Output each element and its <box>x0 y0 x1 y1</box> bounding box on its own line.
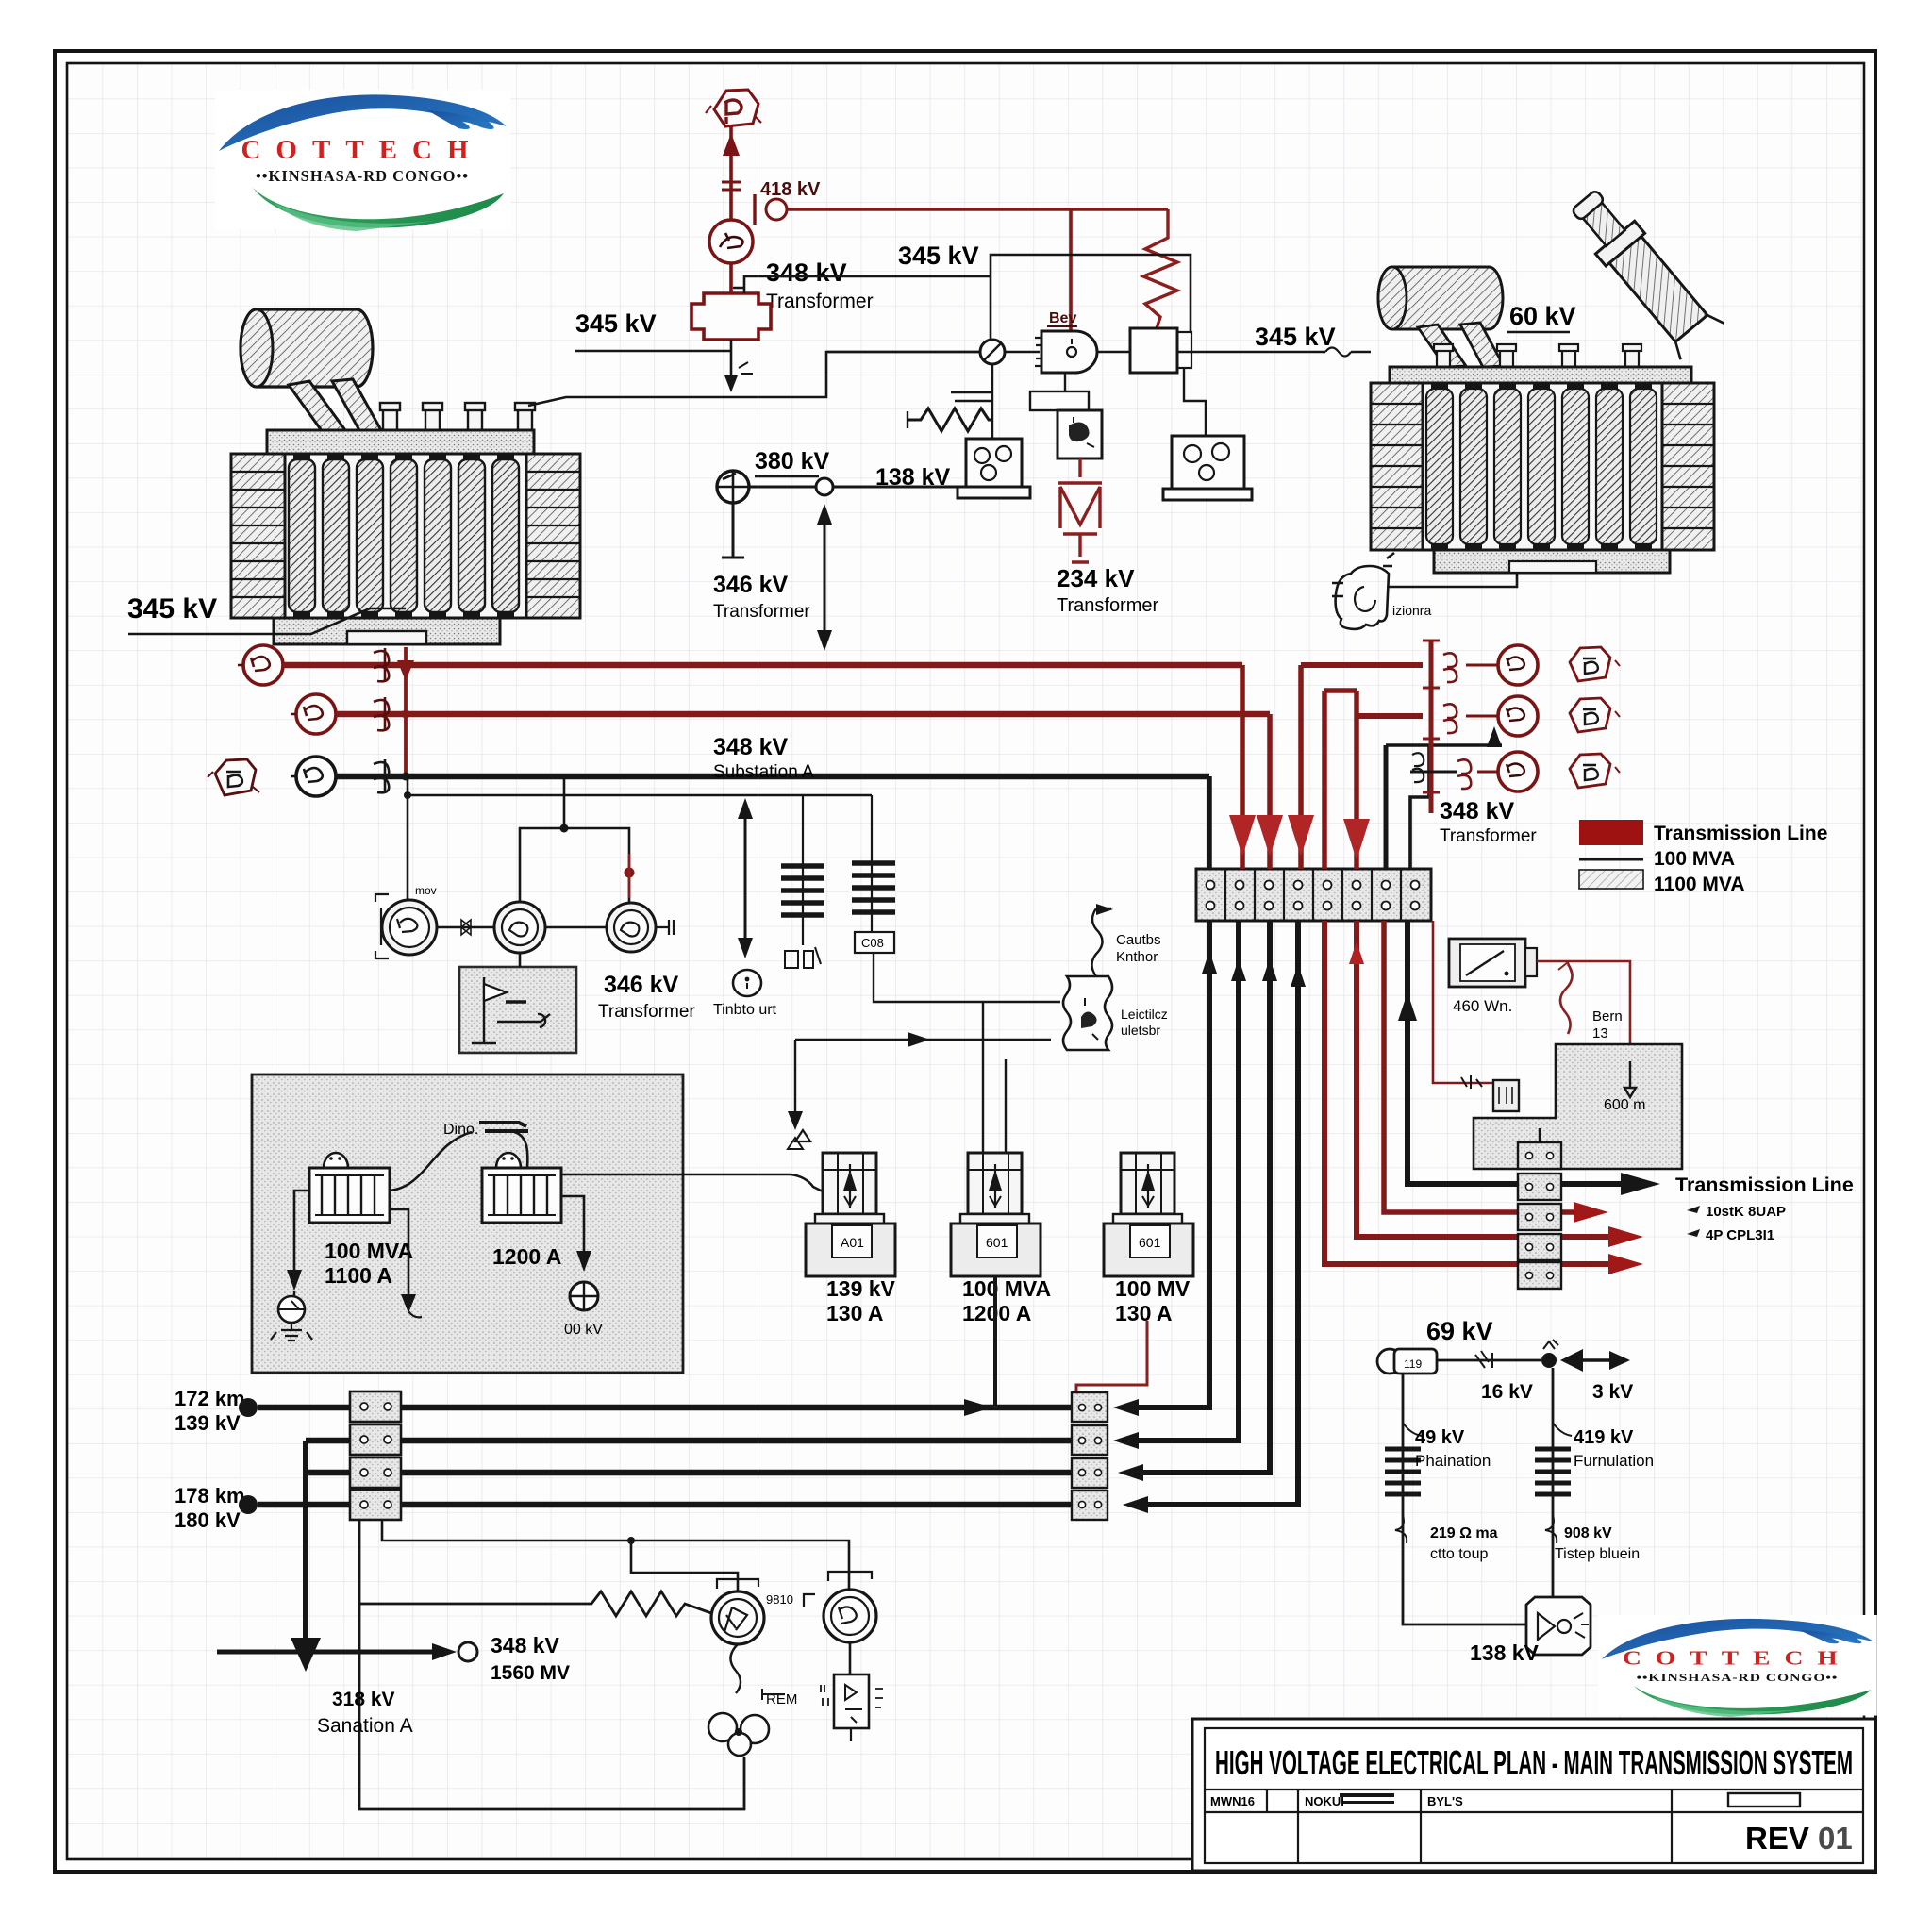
node P2 (hexagon flag left) <box>208 759 259 795</box>
wire U3 red drop to TB1 <box>1076 1321 1147 1392</box>
wire CT1 drop <box>991 364 993 439</box>
label 908 kV Tistep <box>1545 1515 1557 1543</box>
wire 345kV to T2 with flex joint <box>1177 351 1371 354</box>
wire T1 top to 345kV black net <box>528 352 981 406</box>
transformer TX1 (cross symbol) <box>691 293 771 340</box>
T1 left radiator <box>231 454 285 618</box>
wire black riser K1 (strip to bus A) <box>1139 921 1209 1407</box>
T2 tank legs <box>1418 325 1466 367</box>
capacitor stack CL1 <box>1385 1449 1421 1494</box>
svg-text:Sanation A: Sanation A <box>317 1715 413 1737</box>
svg-text:234 kV: 234 kV <box>1057 564 1135 592</box>
wire 448kV bus to right <box>787 208 1168 211</box>
junction dots on T1 drop <box>402 661 410 670</box>
legend red bar <box>1579 820 1643 845</box>
fan FA1 (3-lobe) <box>708 1713 769 1756</box>
wire overhead tie M2/M3 <box>520 828 629 903</box>
bus B1 (348kV Substation A, black) <box>336 774 1209 780</box>
control cabinet CC1 (gray dotted box) <box>252 1074 683 1373</box>
svg-text:00 kV: 00 kV <box>564 1322 603 1338</box>
svg-text:Transformer: Transformer <box>713 602 810 622</box>
svg-text:izionra: izionra <box>1392 603 1431 618</box>
svg-text:Transformer: Transformer <box>598 1002 695 1022</box>
node bus A terminal dot <box>239 1398 258 1417</box>
wire black feed F5 (substation bus drop) <box>1207 776 1212 869</box>
transformer T1 (345 kV power transformer, left) <box>231 309 580 644</box>
terminal block column TB2 <box>1518 1142 1561 1289</box>
svg-text:601: 601 <box>1139 1235 1161 1250</box>
wire red riser K6 (to transmission arrow 2) <box>1357 921 1608 1237</box>
generator M3 <box>607 903 656 952</box>
terminal block stack TB0 <box>350 1391 401 1520</box>
svg-text:10stK 8UAP: 10stK 8UAP <box>1706 1204 1786 1220</box>
svg-text:Furnulation: Furnulation <box>1574 1452 1654 1470</box>
svg-text:Knthor: Knthor <box>1116 949 1158 965</box>
wire red feed F4 <box>1354 691 1359 869</box>
switchyard pad (hatched polygon) <box>1474 1044 1682 1169</box>
svg-text:345 kV: 345 kV <box>898 241 979 270</box>
wire black feed F7 <box>1410 745 1429 869</box>
svg-text:380 kV: 380 kV <box>755 448 830 475</box>
meter V1 (circle-cross 380kV) <box>717 471 749 503</box>
disconnect S3 <box>374 759 389 793</box>
svg-text:Phaination: Phaination <box>1415 1452 1491 1470</box>
svg-text:Bern: Bern <box>1592 1008 1623 1024</box>
insulator stack I1 <box>802 795 804 945</box>
legend hatched bar <box>1579 870 1643 889</box>
transformer T2 (69 kV power transformer, right) <box>1371 182 1724 573</box>
wire 69kV right branch <box>1552 1368 1555 1599</box>
svg-text:100 MVA: 100 MVA <box>325 1239 413 1263</box>
SVC motor (Bev) <box>1041 331 1097 373</box>
svg-text:uletsbr: uletsbr <box>1121 1023 1160 1038</box>
wire red feed F2 <box>1267 714 1273 869</box>
generator G3 (black, substation bus) <box>296 757 336 796</box>
T2 top cap bar <box>1390 367 1691 383</box>
svg-text:Cautbs: Cautbs <box>1116 932 1161 948</box>
wire SVC to CT cell <box>1064 373 1066 391</box>
wire GB2 to rectifier <box>849 1642 852 1674</box>
measure arrow A3 (horizontal double) <box>1574 1358 1619 1361</box>
logo COTTECH bottom-right <box>1598 1615 1877 1717</box>
svg-text:130 A: 130 A <box>826 1301 884 1325</box>
instrument CT1 (slashed circle) <box>980 340 1005 364</box>
wire red feed F3 (from R1 right) <box>1298 665 1304 869</box>
wire GB1 to fan <box>730 1644 741 1693</box>
bus R2 right segment <box>1357 713 1423 719</box>
breaker CB1 (red circle) <box>709 220 753 263</box>
generator M1 <box>382 900 437 955</box>
T2 base <box>1434 550 1670 573</box>
breaker unit U1 (139 kV) <box>806 1153 895 1276</box>
wire tie feed from bus B1 <box>563 779 566 828</box>
wire 448kV riser <box>729 126 733 292</box>
wire black header with up arrow <box>1386 743 1502 747</box>
coil icon pair <box>1412 753 1424 782</box>
wire C08 to meter bay <box>874 953 1060 1002</box>
wire U2 bottom drop <box>993 1276 997 1407</box>
wire riser joint to CB bay <box>791 1174 823 1191</box>
bus B <box>306 1438 1072 1444</box>
transformer TX2 (138 kV) <box>1526 1597 1591 1655</box>
disconnect S2 <box>374 697 389 731</box>
T1 top cap bar <box>267 430 534 454</box>
wire V1 stub <box>722 503 744 558</box>
wire substation drop <box>359 1520 744 1809</box>
svg-text:908 kV: 908 kV <box>1564 1525 1612 1541</box>
brace left of M1 <box>375 894 389 958</box>
svg-text:Transformer: Transformer <box>766 291 874 312</box>
svg-text:130 A: 130 A <box>1115 1301 1173 1325</box>
wire BK1 left drop to gauge <box>294 1191 309 1275</box>
resistor R-spring (red) <box>1143 209 1177 328</box>
generator G2 (red, bus 2) <box>296 694 336 734</box>
capacitor stack CL2 <box>1535 1449 1571 1494</box>
legend 100 MVA line <box>1579 858 1643 861</box>
relay cell K1 <box>1058 410 1102 458</box>
svg-text:119: 119 <box>1404 1357 1422 1371</box>
svg-text:9810: 9810 <box>766 1592 793 1607</box>
instrument TU1 (Tinbto unit) <box>733 970 761 996</box>
resistor R3 <box>359 1591 711 1616</box>
wire BK2 bottom drop <box>561 1196 584 1255</box>
measure arrow A1 (double headed vertical) <box>824 515 826 640</box>
wire 380kV link <box>749 486 816 489</box>
svg-text:1100 MVA: 1100 MVA <box>1654 874 1745 895</box>
svg-text:178 km: 178 km <box>175 1484 245 1507</box>
wire drop to SVC motor <box>1069 209 1073 332</box>
wire M2-M3 link <box>545 926 607 929</box>
wire red feed F1 <box>1240 665 1245 869</box>
bus R2 (348kV red) <box>336 711 1270 718</box>
svg-text:Transmission Line: Transmission Line <box>1654 823 1827 844</box>
T2 winding columns <box>1426 389 1657 544</box>
generator G1 (red, bus 1) <box>243 645 283 685</box>
svg-text:49 kV: 49 kV <box>1415 1427 1465 1448</box>
wire BK2 long run to right <box>561 1174 791 1176</box>
svg-text:Substation A: Substation A <box>713 762 814 782</box>
relay RL1 <box>1493 1080 1519 1111</box>
wire M2 to RC1 <box>519 953 522 967</box>
breaker unit U2 (100 MVA) <box>951 1153 1041 1276</box>
wire TX1 to ground arrow <box>730 340 733 389</box>
T2 core housing <box>1423 383 1662 550</box>
node J-red <box>625 868 635 878</box>
meter W1 (watt meter) <box>1449 939 1525 987</box>
capacitor bank C1 (left cell) <box>966 439 1022 487</box>
svg-text:345 kV: 345 kV <box>127 593 217 625</box>
wire red from meter <box>1537 961 1630 1061</box>
svg-text:601: 601 <box>986 1235 1008 1250</box>
svg-text:Tinbto urt: Tinbto urt <box>713 1002 777 1018</box>
wire M1-M2 link <box>437 926 494 929</box>
wire L-branch with arrow <box>795 1039 1051 1041</box>
disconnect SD3 + breaker circle + hexagon (row 3, black feed) <box>1410 771 1457 774</box>
bus C <box>306 1470 1072 1476</box>
surge arrester M (red) <box>1058 458 1102 562</box>
wire black riser K2 <box>1139 921 1239 1441</box>
svg-text:1100 A: 1100 A <box>325 1263 392 1288</box>
disconnect SD1 + breaker circle + hexagon (row 1) <box>1443 653 1498 682</box>
generator M2 <box>494 902 545 953</box>
svg-text:139 kV: 139 kV <box>175 1411 241 1435</box>
wire 348kV out with terminal <box>217 1650 441 1655</box>
title block <box>1192 1719 1875 1871</box>
measure arrow A2 (double headed) <box>744 809 747 947</box>
svg-text:348 kV: 348 kV <box>491 1633 560 1657</box>
wire black trunk K8 (transmission line out) <box>1407 921 1621 1184</box>
bus R1 (345kV red) <box>283 662 1242 669</box>
svg-text:100 MVA: 100 MVA <box>1654 848 1735 870</box>
svg-text:Transformer: Transformer <box>1057 595 1159 616</box>
svg-text:Transformer: Transformer <box>1440 826 1537 846</box>
svg-text:60 kV: 60 kV <box>1509 302 1576 330</box>
wire red meter tap <box>1433 921 1493 1083</box>
bus D (180kV feeder) <box>258 1502 1072 1508</box>
instrument transformer IT1 (wavy box) <box>1063 976 1112 1050</box>
svg-text:MWN16: MWN16 <box>1210 1794 1255 1808</box>
bus R1 right segment <box>1301 662 1423 668</box>
wire U2 feeders up <box>983 1002 1006 1153</box>
T2 right radiator <box>1662 383 1714 550</box>
T1 right radiator <box>526 454 580 618</box>
flex lead (squiggle with arrow, Cautbs) <box>1091 908 1102 976</box>
relay cabinet RC1 (gray) <box>459 967 576 1053</box>
grounding CT symbol (izionra) <box>1332 553 1517 629</box>
svg-text:Bev: Bev <box>1049 310 1076 326</box>
svg-text:138 kV: 138 kV <box>1470 1641 1540 1665</box>
wire black feed F6 <box>1384 745 1389 869</box>
svg-text:180 kV: 180 kV <box>175 1508 241 1532</box>
svg-text:1200 A: 1200 A <box>492 1244 561 1269</box>
svg-text:REV 01: REV 01 <box>1745 1821 1853 1856</box>
svg-text:69 kV: 69 kV <box>1426 1317 1493 1345</box>
wire T1 red drop <box>404 647 408 776</box>
breaker unit U3 (100 MV) <box>1104 1153 1193 1276</box>
svg-text:13: 13 <box>1592 1025 1608 1041</box>
svg-text:100 MV: 100 MV <box>1115 1276 1191 1301</box>
svg-text:100 MVA: 100 MVA <box>962 1276 1051 1301</box>
wire pad to TB2 <box>1539 1128 1541 1142</box>
breaker BK1 (100 MVA) <box>309 1153 390 1223</box>
flex lead (red squiggle Bern) <box>1560 964 1573 1034</box>
svg-text:600 m: 600 m <box>1604 1097 1645 1113</box>
wire 69kV left branch <box>1403 1374 1526 1624</box>
disconnect SD2 + breaker circle + hexagon (row 2) <box>1443 704 1498 733</box>
wire block run to gen row <box>382 1520 849 1590</box>
terminal block stack TB1 (right small) <box>1072 1392 1108 1520</box>
node bus D terminal dot <box>239 1495 258 1514</box>
svg-text:172 km: 172 km <box>175 1387 245 1410</box>
wire red U-link <box>1324 691 1357 869</box>
svg-text:Transmission Line: Transmission Line <box>1675 1174 1854 1196</box>
disconnect S1 <box>374 648 389 682</box>
svg-text:219 Ω ma: 219 Ω ma <box>1430 1525 1498 1541</box>
resistor R2 (horizontal zigzag) <box>951 392 992 401</box>
disconnect tick <box>753 194 756 225</box>
svg-text:HIGH VOLTAGE ELECTRICAL PLAN -: HIGH VOLTAGE ELECTRICAL PLAN - MAIN TRAN… <box>1215 1743 1853 1782</box>
wire red riser K7 (to transmission arrow 1) <box>1384 921 1574 1212</box>
svg-text:BYL'S: BYL'S <box>1427 1794 1463 1808</box>
svg-text:345 kV: 345 kV <box>1255 323 1336 351</box>
terminal strip TS1 (central) <box>1196 869 1431 921</box>
node 448kV stub circle <box>766 199 787 220</box>
svg-text:Tistep bluein: Tistep bluein <box>1555 1546 1640 1562</box>
svg-text:138 kV: 138 kV <box>875 464 951 491</box>
generator GB1 (bottom) <box>711 1591 764 1644</box>
generator GB2 (bottom) <box>824 1590 876 1642</box>
bus A (139kV feeder) <box>258 1405 1072 1411</box>
node P1 (hexagon flag, top feeder) <box>706 90 761 126</box>
rectifier RX1 <box>834 1674 869 1728</box>
T1 bushings <box>380 403 535 430</box>
T1 winding columns <box>289 459 519 612</box>
svg-text:348 kV: 348 kV <box>713 734 789 760</box>
svg-text:1560 MV: 1560 MV <box>491 1662 570 1684</box>
svg-text:348 kV: 348 kV <box>1440 798 1515 824</box>
svg-text:Leictilcz: Leictilcz <box>1121 1007 1168 1022</box>
grounding pin in pad <box>1624 1061 1636 1097</box>
node J69 <box>1541 1353 1557 1368</box>
svg-text:418 kV: 418 kV <box>760 179 821 200</box>
wire breaker bay frame <box>991 255 1191 352</box>
svg-text:345 kV: 345 kV <box>575 309 657 338</box>
label 419 kV Furnulation <box>1553 1423 1572 1436</box>
wire 345kV left feeder <box>575 350 731 353</box>
svg-text:A01: A01 <box>841 1235 864 1250</box>
T1 conservator tank <box>241 309 373 387</box>
T1 base <box>274 618 500 644</box>
wire red riser K5 (to transmission arrow 3) <box>1324 921 1608 1264</box>
breaker box B1 <box>1130 328 1177 373</box>
T2 bushing HV diagonal <box>1562 182 1724 360</box>
svg-text:4P CPL3I1: 4P CPL3I1 <box>1706 1227 1774 1243</box>
T2 bushings <box>1434 344 1641 367</box>
label 219 ohm <box>1395 1515 1407 1543</box>
svg-text:3 kV: 3 kV <box>1592 1381 1633 1403</box>
gauge GA1 <box>293 1291 295 1296</box>
node N1 (small circle) <box>816 478 833 495</box>
fuse block C08 <box>855 932 894 953</box>
wire main 345kV run <box>826 351 1130 354</box>
logo COTTECH top-left <box>215 90 510 231</box>
wire 69kV top run <box>1437 1359 1541 1362</box>
svg-text:318 kV: 318 kV <box>332 1689 395 1710</box>
svg-text:16 kV: 16 kV <box>1481 1381 1533 1403</box>
wire black riser K4 <box>1148 921 1298 1505</box>
svg-text:346 kV: 346 kV <box>604 972 679 998</box>
svg-text:139 kV: 139 kV <box>826 1276 896 1301</box>
svg-text:460 Wn.: 460 Wn. <box>1453 997 1512 1015</box>
svg-text:346 kV: 346 kV <box>713 572 789 598</box>
wire G3 bus to generator row <box>407 779 409 900</box>
svg-text:NOKUI: NOKUI <box>1305 1794 1344 1808</box>
T1 core housing <box>285 454 526 618</box>
wire 138kV link <box>833 486 958 489</box>
T2 left radiator <box>1371 383 1423 550</box>
label 49 kV Phaination <box>1403 1423 1422 1436</box>
insulator stack I2 <box>871 795 873 932</box>
wire black riser K3 <box>1143 921 1270 1473</box>
T2 conservator tank <box>1378 267 1503 329</box>
gauge GA2 (circle cross) <box>570 1282 598 1310</box>
svg-text:348 kV: 348 kV <box>766 258 847 287</box>
capacitor bank C2 (right cell) <box>1184 368 1206 436</box>
wire BK1 to Dino to BK2 <box>390 1132 527 1191</box>
wire feeder drop (big down arrow) <box>303 1441 308 1640</box>
svg-text:ctto toup: ctto toup <box>1430 1546 1488 1562</box>
svg-text:mov: mov <box>415 884 437 897</box>
svg-text:C08: C08 <box>861 936 884 950</box>
wire aux tie bus (y843) <box>408 794 872 797</box>
wire T1 label leader <box>128 608 406 634</box>
bus bar vertical (red right riser) <box>1429 641 1434 813</box>
breaker BK2 (1200 A) <box>482 1153 561 1223</box>
svg-text:419 kV: 419 kV <box>1574 1427 1634 1448</box>
T1 tank legs <box>289 381 345 432</box>
wire BK1 bottom hook <box>390 1209 408 1298</box>
wire mid 345kV bus <box>733 276 991 293</box>
